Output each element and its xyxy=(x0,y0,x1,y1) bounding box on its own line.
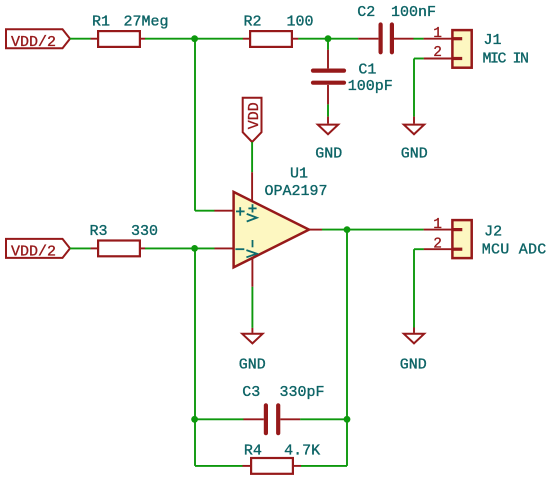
svg-text:330: 330 xyxy=(131,223,158,240)
resistor R1 xyxy=(91,31,146,47)
svg-text:GND: GND xyxy=(400,356,427,373)
wire C3 to node E xyxy=(300,418,347,420)
wire C2 to J1 pin1 xyxy=(413,38,423,40)
wire node A to R2 xyxy=(195,38,243,40)
svg-text:J2: J2 xyxy=(484,223,502,240)
svg-text:GND: GND xyxy=(239,356,266,373)
ground (U1) xyxy=(242,328,262,344)
svg-text:C2: C2 xyxy=(357,4,375,21)
svg-text:VDD/2: VDD/2 xyxy=(11,34,56,51)
capacitor C1 xyxy=(313,50,344,105)
svg-text:MCU ADC: MCU ADC xyxy=(482,241,547,258)
svg-text:1: 1 xyxy=(433,217,442,233)
capacitor C2 xyxy=(358,25,413,53)
power label VDD/2 top xyxy=(6,29,70,51)
connector J1 xyxy=(424,30,472,68)
svg-text:4.7K: 4.7K xyxy=(284,443,320,460)
svg-text:J1: J1 xyxy=(484,32,502,49)
svg-text:R2: R2 xyxy=(244,14,262,31)
svg-text:100pF: 100pF xyxy=(348,78,393,95)
wire VDD to U1 V+ xyxy=(251,142,253,172)
svg-text:OPA2197: OPA2197 xyxy=(265,183,328,200)
svg-text:330pF: 330pF xyxy=(280,384,325,401)
svg-text:R3: R3 xyxy=(90,223,108,240)
ground (C1) xyxy=(318,117,338,135)
wire node C down feedback left xyxy=(194,248,196,466)
wire node F to J2 pin1 xyxy=(347,229,424,231)
svg-text:2: 2 xyxy=(433,236,442,252)
wire node A down to noninverting input xyxy=(195,39,215,211)
power label VDD xyxy=(243,98,263,142)
pin name V+ xyxy=(247,204,257,221)
wire node D to C3 xyxy=(195,418,244,420)
svg-text:R1: R1 xyxy=(92,13,110,30)
svg-text:MIC IN: MIC IN xyxy=(483,51,529,68)
wire R3 to node C xyxy=(145,247,195,249)
wire C1 to ground xyxy=(327,104,329,116)
plus mark noninverting input xyxy=(236,207,245,216)
wire right vertical feedback xyxy=(346,230,348,466)
wire node B to C2 xyxy=(328,38,358,40)
node F junction xyxy=(344,226,351,233)
wire VDD/2 to R1 xyxy=(70,38,91,40)
connector J2 xyxy=(424,220,472,258)
svg-text:GND: GND xyxy=(401,146,428,163)
wire VDD/2 to R3 xyxy=(70,247,91,249)
wire node C to inverting input xyxy=(195,247,215,249)
wire R4 to right vertical xyxy=(301,465,347,467)
pin name V- xyxy=(246,240,256,257)
wire U1 output to node F xyxy=(322,229,347,231)
svg-text:VDD/2: VDD/2 xyxy=(11,244,56,261)
node B junction xyxy=(325,35,332,42)
node D junction xyxy=(191,416,198,423)
ground (J1 pin2) xyxy=(404,117,424,135)
svg-text:VDD: VDD xyxy=(246,102,263,129)
node C junction xyxy=(191,245,198,252)
ground (J2 pin2) xyxy=(404,328,424,344)
svg-text:GND: GND xyxy=(315,146,342,163)
resistor R2 xyxy=(243,31,299,47)
node A junction xyxy=(191,35,198,42)
svg-text:1: 1 xyxy=(433,26,442,42)
svg-text:27Meg: 27Meg xyxy=(124,13,169,30)
wire left vertical to R4 xyxy=(195,465,243,467)
svg-text:U1: U1 xyxy=(290,165,308,182)
svg-text:C1: C1 xyxy=(358,61,376,78)
wire J1 pin2 to ground xyxy=(414,59,424,117)
resistor R4 xyxy=(243,458,302,474)
svg-text:R4: R4 xyxy=(244,443,262,460)
resistor R3 xyxy=(91,241,146,257)
minus mark inverting input xyxy=(235,248,244,250)
capacitor C3 xyxy=(243,405,300,433)
power label VDD/2 middle xyxy=(6,239,70,261)
svg-text:100: 100 xyxy=(287,14,314,31)
wire node B to C1 xyxy=(327,39,329,50)
svg-text:100nF: 100nF xyxy=(391,4,436,21)
wire R2 to node B xyxy=(298,38,328,40)
node E junction xyxy=(344,416,351,423)
wire U1 V- pin to ground xyxy=(251,287,253,328)
svg-text:2: 2 xyxy=(433,45,442,61)
svg-text:C3: C3 xyxy=(242,384,260,401)
wire R1 to node A xyxy=(145,38,195,40)
wire J2 pin2 to ground xyxy=(414,249,424,327)
op-amp U1 xyxy=(214,172,322,287)
